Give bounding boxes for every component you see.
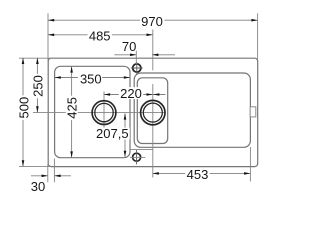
arrows 425 — [70, 66, 73, 72]
main drain centerline vertical — [103, 92, 105, 130]
dim 207,5 line — [124, 113, 126, 156]
label 250 — [32, 74, 44, 98]
arrows 970 — [48, 19, 54, 22]
main bowl — [55, 66, 130, 157]
label 207,5 — [95, 128, 130, 140]
vertical centerline (sink center, upper) — [152, 30, 154, 71]
horizontal centerline through drains — [33, 112, 166, 114]
svg-text:425: 425 — [64, 97, 79, 119]
arrows 30 — [42, 175, 48, 178]
extension bowl left bottom — [53, 159, 55, 183]
dim 500 line — [22, 58, 24, 167]
dim 250 line — [36, 58, 38, 113]
sink outer rim — [48, 58, 258, 166]
extension line right top — [257, 13, 259, 60]
extension line bottom edge to left — [19, 166, 51, 168]
dim 970 line — [48, 19, 258, 21]
dim 70 line — [114, 54, 175, 56]
dim 350 line — [55, 77, 130, 79]
extension line tap hole — [135, 51, 137, 64]
overflow slot — [250, 107, 256, 117]
arrows 485 — [48, 34, 54, 37]
arrows 500 — [22, 58, 25, 64]
svg-text:70: 70 — [122, 39, 136, 54]
tap hole — [133, 64, 141, 72]
vertical centerline (sink center, lower) — [152, 84, 154, 178]
half bowl — [137, 78, 167, 144]
extension line top edge to left — [19, 57, 51, 59]
dim 453 line — [153, 172, 251, 174]
dim 220 line — [104, 94, 165, 96]
dim 30 line — [31, 175, 71, 177]
svg-text:500: 500 — [16, 97, 31, 119]
label 453 — [185, 168, 209, 180]
svg-text:970: 970 — [141, 14, 163, 29]
main bowl drain — [92, 101, 116, 125]
dim 485 line — [48, 34, 153, 36]
arrows 70 — [130, 54, 136, 57]
label 970 — [140, 15, 164, 27]
label 485 — [88, 30, 112, 42]
arrows 220 — [104, 93, 110, 96]
dim 425 line — [71, 66, 73, 157]
drainer area rect — [134, 73, 250, 147]
svg-text:350: 350 — [80, 71, 102, 86]
svg-text:207,5: 207,5 — [96, 126, 129, 141]
extension sink left bottom — [47, 164, 49, 182]
svg-text:220: 220 — [120, 86, 142, 101]
label 500 — [18, 95, 30, 119]
arrows 350 — [55, 76, 61, 79]
half bowl drain — [141, 100, 165, 124]
label 350 — [78, 72, 102, 84]
extension drainer bottom to centerline — [130, 148, 153, 150]
label 425 — [66, 96, 78, 120]
extension bowl bottom to right — [130, 156, 145, 158]
extension drainer right bottom — [249, 147, 251, 182]
svg-text:250: 250 — [30, 75, 45, 97]
svg-text:30: 30 — [31, 179, 45, 194]
svg-text:485: 485 — [89, 29, 111, 44]
svg-text:453: 453 — [187, 167, 209, 182]
arrows 207,5 — [124, 113, 127, 119]
extension line left top — [47, 13, 49, 60]
label 220 — [119, 87, 143, 99]
arrows 250 — [36, 58, 39, 64]
arrows 453 — [153, 172, 159, 175]
fixing hole bottom — [133, 153, 141, 161]
